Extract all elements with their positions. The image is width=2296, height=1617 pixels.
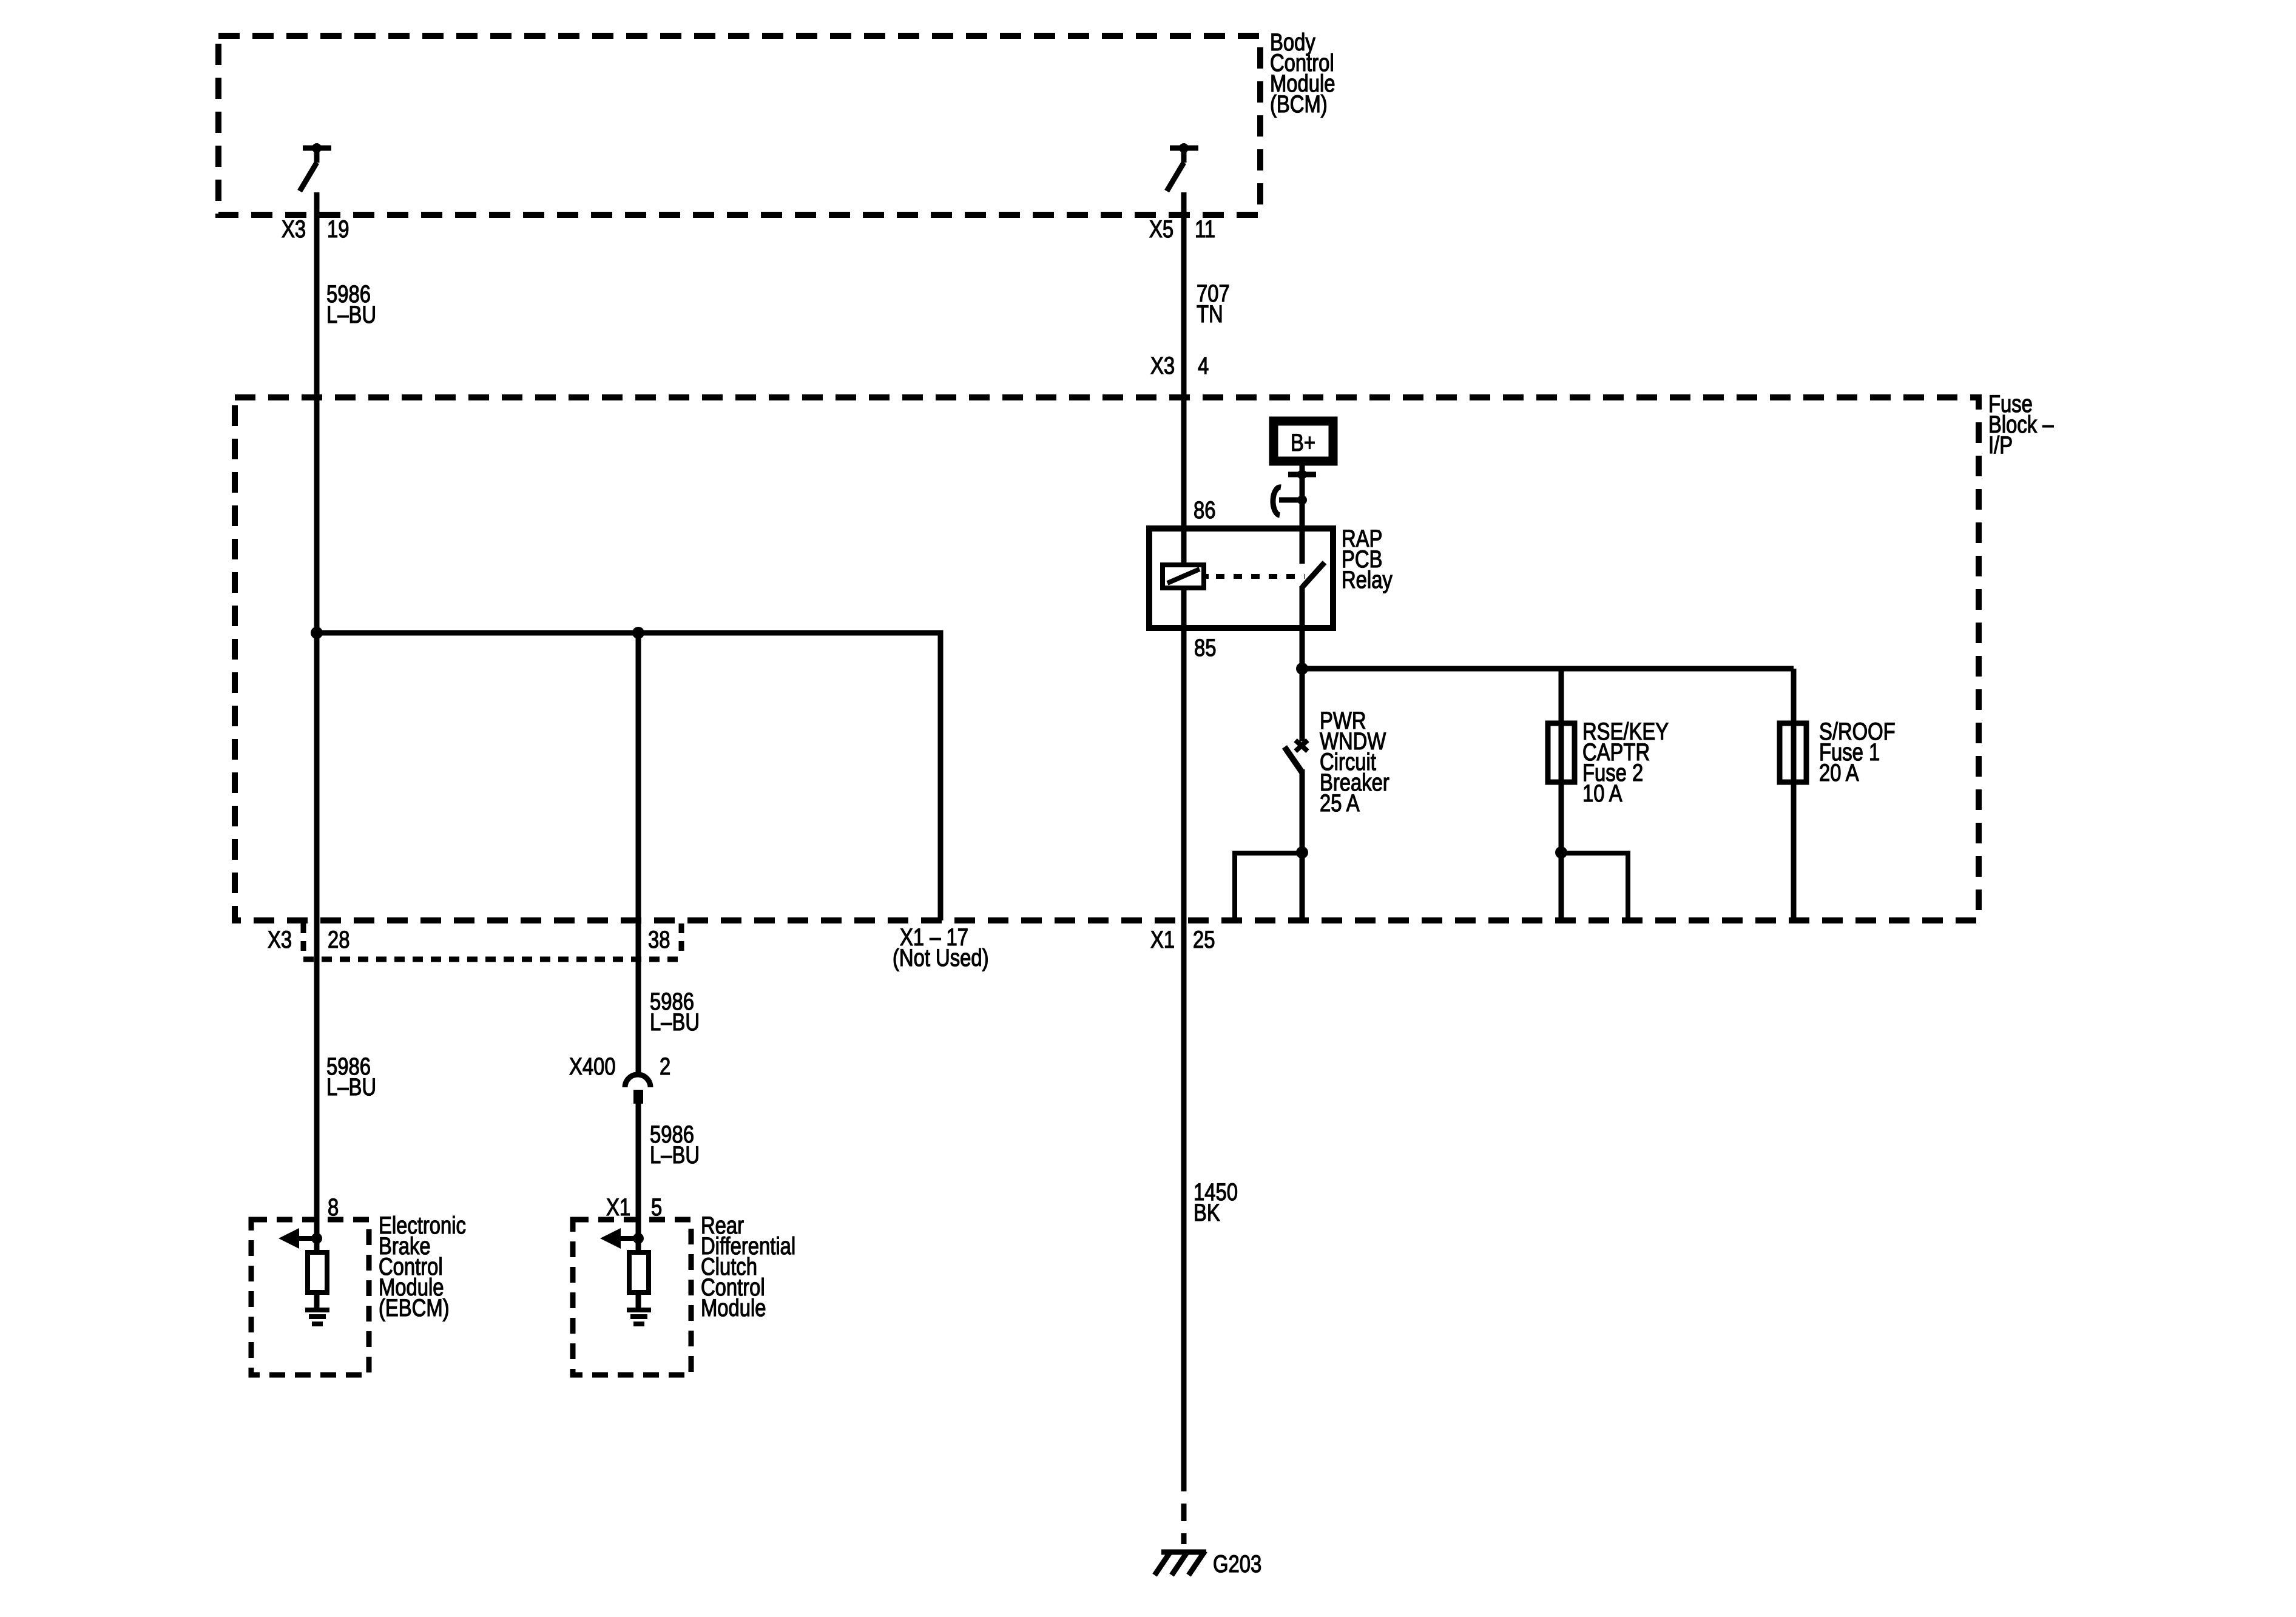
svg-text:G203: G203 — [1213, 1550, 1261, 1578]
wire: horizontal feed bus to fuses — [1302, 666, 1794, 672]
pin labels X1 | 5 (rear diff module) — [606, 1193, 662, 1221]
svg-text:(Not Used): (Not Used) — [893, 944, 989, 971]
pin labels X5 | 11 — [1149, 215, 1215, 243]
wire: S/ROOF fuse branch — [1791, 669, 1797, 920]
wire label 5986 L-BU (branch, below X400) — [650, 1121, 700, 1169]
wire: relay contact output down to feed node — [1300, 586, 1305, 669]
svg-text:85: 85 — [1194, 634, 1216, 661]
svg-text:X3: X3 — [282, 215, 306, 243]
module box: Rear Differential Clutch Control Module — [573, 1220, 691, 1375]
svg-text:8: 8 — [328, 1193, 339, 1221]
wire: breaker branch down from feed node — [1300, 669, 1305, 741]
svg-text:X1: X1 — [606, 1193, 630, 1221]
svg-text:I/P: I/P — [1988, 431, 2013, 459]
rear diff input arrow — [600, 1228, 638, 1249]
wire: breaker output down to X1-25 exit — [1300, 769, 1305, 920]
label: RAP PCB Relay — [1342, 525, 1393, 593]
resistor (EBCM internal load) — [308, 1252, 327, 1292]
node: breaker output junction — [1296, 846, 1308, 859]
label: S/ROOF Fuse 1 20 A — [1819, 718, 1896, 786]
pin label 86 — [1194, 496, 1215, 524]
svg-text:BK: BK — [1194, 1199, 1220, 1226]
label: Rear Differential Clutch Control Module — [701, 1212, 795, 1322]
svg-text:5: 5 — [651, 1193, 662, 1221]
svg-text:L–BU: L–BU — [326, 301, 376, 328]
svg-text:L–BU: L–BU — [650, 1141, 700, 1169]
svg-text:B+: B+ — [1291, 429, 1315, 456]
svg-text:28: 28 — [328, 926, 349, 953]
label: RSE/KEY CAPTR Fuse 2 10 A — [1582, 718, 1669, 807]
bus stub bracket at fuse 2 output — [1561, 853, 1628, 920]
svg-text:X3: X3 — [268, 926, 292, 953]
pin labels X3 | 28 | 38 — [268, 926, 670, 953]
circuit breaker PWR WNDW 25 A (x-contact and arm) — [1285, 740, 1308, 772]
wire: branch down to pin 38 / X400 / rear diff module — [636, 633, 641, 1076]
power feed symbol B+ — [1274, 421, 1333, 461]
label: Electronic Brake Control Module (EBCM) — [379, 1212, 466, 1322]
node: junction on 5986 wire — [311, 627, 323, 639]
in-line terminal symbol below B+ (dot, bar, hook) — [1273, 470, 1316, 515]
connector labels X400 | 2 — [569, 1053, 670, 1080]
node: fuse 2 output junction — [1555, 846, 1567, 859]
svg-text:20 A: 20 A — [1819, 759, 1859, 786]
resistor (rear diff internal load) — [629, 1252, 649, 1292]
module box: Electronic Brake Control Module (EBCM) — [251, 1220, 369, 1375]
label: Body Control Module (BCM) — [1270, 29, 1335, 118]
svg-text:86: 86 — [1194, 496, 1215, 524]
label: Fuse Block - I/P — [1988, 390, 2054, 459]
pin labels X1 | 25 — [1150, 926, 1215, 953]
connector bracket X3 (pins 28 / 38) — [303, 923, 681, 959]
pin label X1 - 17 (Not Used) — [893, 923, 989, 971]
wire: dashed lead to ground G203 — [1181, 1474, 1187, 1544]
node: EBCM arrow junction — [311, 1233, 322, 1244]
svg-text:TN: TN — [1197, 300, 1223, 328]
switch S1 (BCM driver, pin X3-19) — [300, 143, 331, 191]
wire: X400 down to rear diff module — [636, 1104, 641, 1252]
wire: 5986 L-BU vertical from BCM X3-19 down to EBCM — [314, 192, 320, 1252]
EBCM input arrow — [279, 1228, 317, 1249]
svg-text:Module: Module — [701, 1294, 766, 1322]
bus stub bracket at breaker output — [1235, 853, 1302, 920]
svg-text:X1: X1 — [1150, 926, 1175, 953]
pin label 8 (EBCM) — [328, 1193, 339, 1221]
wire: resistor to ground (rear diff) — [636, 1292, 641, 1309]
ground symbol (rear diff internal) — [627, 1310, 651, 1324]
node: rear diff arrow junction — [633, 1233, 644, 1244]
ground G203 (chassis ground rake) — [1155, 1551, 1206, 1575]
wire label 5986 L-BU (upper left) — [326, 280, 376, 328]
node: feed junction below relay — [1296, 663, 1308, 675]
module box: Fuse Block - I/P — [235, 397, 1979, 920]
relay contact arm (pin 30 to 87) — [1302, 562, 1325, 587]
relay box: RAP PCB Relay — [1149, 528, 1333, 628]
ground symbol (EBCM internal) — [305, 1310, 329, 1324]
wire: resistor to ground (EBCM) — [314, 1292, 320, 1309]
svg-text:X400: X400 — [569, 1053, 616, 1080]
wire label 5986 L-BU (branch, above X400) — [650, 988, 700, 1036]
wire: B+ box down to RAP relay contact — [1300, 465, 1305, 564]
svg-text:2: 2 — [660, 1053, 670, 1080]
svg-text:(EBCM): (EBCM) — [379, 1294, 450, 1322]
svg-text:19: 19 — [327, 215, 349, 243]
pin labels X3 | 4 (fuse block top) — [1150, 352, 1209, 379]
svg-text:11: 11 — [1195, 215, 1215, 243]
fuse F1: S/ROOF Fuse 1 — [1780, 723, 1806, 782]
relay coil (rect with diagonal) — [1163, 565, 1204, 588]
svg-text:Relay: Relay — [1342, 566, 1393, 593]
wire: 707 TN vertical from BCM X5-11 down into fuse block and to G203 — [1181, 192, 1187, 1474]
svg-text:38: 38 — [648, 926, 670, 953]
relay actuating dashed link — [1204, 574, 1305, 579]
wire: horizontal tie 5986 inside fuse block — [317, 633, 940, 920]
svg-text:4: 4 — [1198, 352, 1209, 379]
svg-text:10 A: 10 A — [1582, 780, 1622, 807]
svg-text:L–BU: L–BU — [326, 1073, 376, 1101]
label: PWR WNDW Circuit Breaker 25 A — [1320, 707, 1389, 817]
wire label 1450 BK — [1194, 1178, 1238, 1226]
svg-text:X3: X3 — [1150, 352, 1175, 379]
module box: Body Control Module (BCM) — [218, 36, 1260, 215]
wire label 5986 L-BU (left, below fuse block) — [326, 1053, 376, 1101]
switch S2 (BCM driver, pin X5-11) — [1167, 143, 1198, 191]
pin label 85 — [1194, 634, 1216, 661]
node: branch junction to pin 38 — [632, 627, 644, 639]
in-line connector X400 pin 2 — [625, 1075, 650, 1104]
svg-text:L–BU: L–BU — [650, 1008, 700, 1036]
svg-text:25 A: 25 A — [1320, 789, 1360, 817]
fuse F2: RSE/KEY CAPTR Fuse 2 — [1548, 723, 1575, 782]
svg-text:X5: X5 — [1149, 215, 1173, 243]
wire label 707 TN — [1197, 280, 1230, 328]
wire: RSE/KEY CAPTR fuse branch — [1559, 669, 1564, 920]
pin labels X3 | 19 — [282, 215, 349, 243]
svg-text:25: 25 — [1193, 926, 1215, 953]
svg-text:(BCM): (BCM) — [1270, 90, 1328, 118]
label: G203 — [1213, 1550, 1261, 1578]
